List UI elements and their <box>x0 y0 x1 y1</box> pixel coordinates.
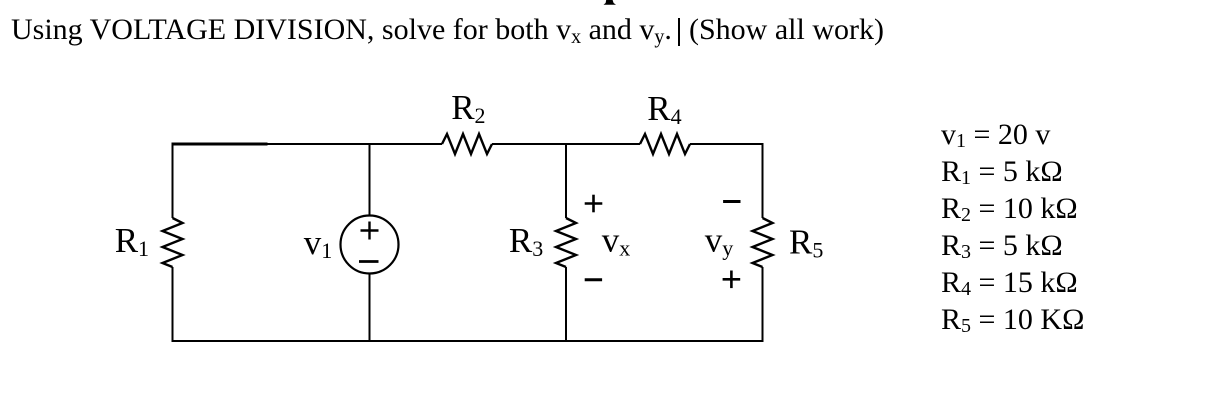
wire top-left segment (thick) <box>172 143 268 146</box>
wire v1 branch upper <box>369 144 371 216</box>
svg-text:R3: R3 <box>509 221 543 261</box>
resistor R2 <box>442 88 492 154</box>
svg-text:R2: R2 <box>451 88 485 128</box>
minus sign vy <box>723 200 740 203</box>
svg-text:vy: vy <box>705 221 734 261</box>
values list <box>941 120 1050 150</box>
resistor R3 <box>509 218 576 267</box>
wire R3 branch lower <box>565 267 567 341</box>
wire left upper <box>172 143 174 218</box>
resistor R1 <box>115 218 183 267</box>
wire top segment R2 to R4 <box>492 143 640 145</box>
svg-text:R4: R4 <box>647 89 681 129</box>
svg-text:R5: R5 <box>789 222 823 262</box>
cut-off glyph at top edge <box>600 0 622 6</box>
title line <box>11 13 672 47</box>
wire R3 branch upper <box>565 144 567 218</box>
svg-text:R1: R1 <box>115 221 149 261</box>
minus sign vx <box>585 278 602 281</box>
svg-text:v1: v1 <box>304 223 333 263</box>
plus sign vy <box>723 271 741 289</box>
wire left lower <box>172 267 174 342</box>
wire top segment to R2 <box>268 143 443 145</box>
resistor R5 <box>753 218 824 267</box>
svg-text:vx: vx <box>602 221 631 261</box>
wire right lower <box>762 267 764 342</box>
text cursor <box>678 18 680 46</box>
plus sign vx <box>585 195 603 213</box>
wire right upper <box>762 143 764 218</box>
title part 2 <box>689 13 884 47</box>
wire top segment R4 to right corner <box>690 143 764 145</box>
resistor R4 <box>640 89 690 154</box>
wire bottom <box>172 340 764 342</box>
wire v1 branch lower <box>369 274 371 342</box>
voltage source v1 <box>304 216 399 274</box>
